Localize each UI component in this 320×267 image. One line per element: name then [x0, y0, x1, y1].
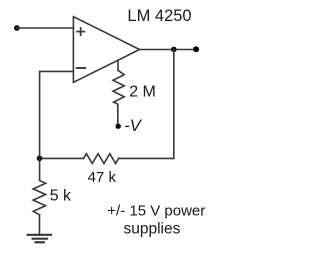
wire to -V terminal [117, 104, 119, 124]
wire noninverting input [17, 27, 73, 29]
wire 5k top lead [39, 158, 41, 180]
node output terminal [193, 46, 199, 52]
wire to ground [39, 215, 41, 235]
resistor R 2M [113, 70, 124, 104]
pin + label [77, 28, 84, 35]
node inverting junction [37, 156, 43, 162]
svg-text:5 k: 5 k [50, 188, 72, 205]
svg-text:supplies: supplies [124, 221, 181, 238]
wire feedback right vertical [119, 50, 174, 159]
svg-text:47 k: 47 k [88, 169, 117, 186]
svg-text:2 M: 2 M [129, 84, 156, 101]
node input terminal [14, 25, 20, 31]
svg-text:LM 4250: LM 4250 [127, 7, 191, 25]
resistor R 47k [84, 154, 119, 164]
wire output [140, 49, 197, 51]
resistor R 5k [33, 180, 45, 215]
ground [28, 235, 51, 243]
node output junction [171, 47, 177, 53]
pin - label [77, 67, 85, 69]
node -V terminal [116, 124, 121, 129]
op-amp U1 [73, 17, 139, 83]
wire set pin lead [117, 60, 119, 70]
svg-text:-V: -V [124, 117, 142, 135]
wire inverting input [40, 71, 74, 158]
wire feedback left [40, 157, 84, 159]
svg-text:+/- 15 V power: +/- 15 V power [107, 202, 205, 219]
